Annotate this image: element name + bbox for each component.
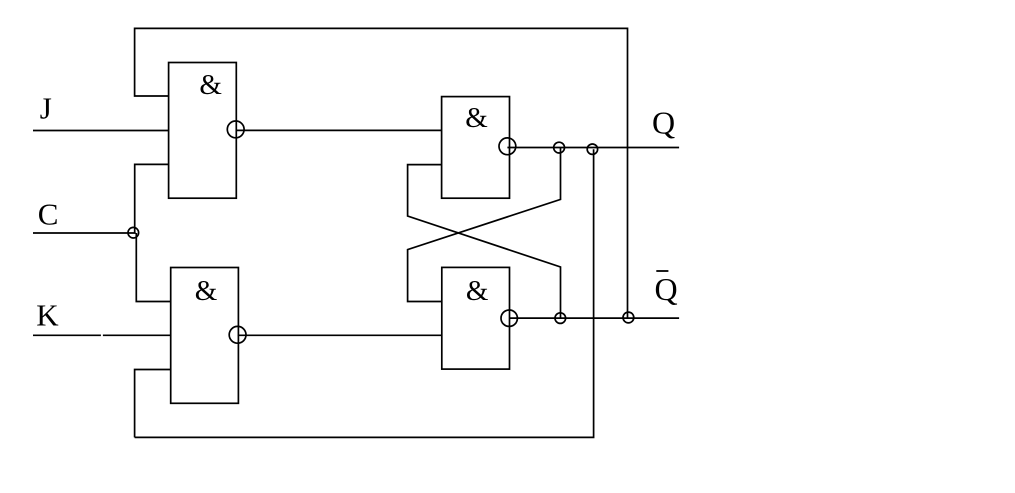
svg-text:&: & [466, 275, 489, 307]
svg-text:Q: Q [652, 104, 675, 140]
svg-text:K: K [36, 298, 59, 333]
svg-text:&: & [465, 102, 488, 134]
svg-text:&: & [195, 275, 218, 307]
svg-text:Q: Q [655, 271, 678, 307]
svg-text:&: & [199, 69, 222, 101]
svg-text:J: J [40, 91, 52, 126]
svg-text:C: C [38, 197, 59, 232]
